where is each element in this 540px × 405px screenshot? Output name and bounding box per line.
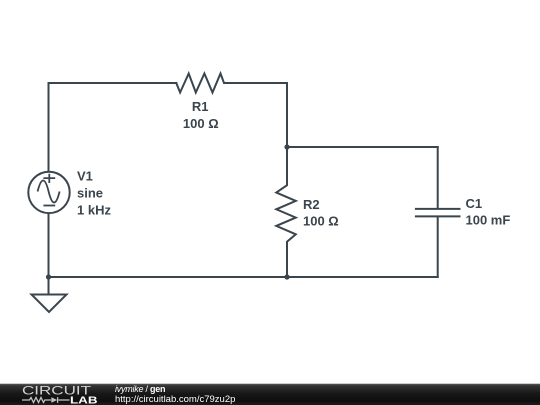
svg-text:100 Ω: 100 Ω <box>183 116 219 131</box>
svg-text:R2: R2 <box>303 197 320 212</box>
svg-text:C1: C1 <box>466 196 483 211</box>
svg-text:V1: V1 <box>77 169 93 184</box>
svg-text:100 mF: 100 mF <box>466 213 511 228</box>
svg-text:sine: sine <box>77 186 103 201</box>
svg-text:100 Ω: 100 Ω <box>303 214 339 229</box>
svg-text:1 kHz: 1 kHz <box>77 203 111 218</box>
svg-text:http://circuitlab.com/c79zu2p: http://circuitlab.com/c79zu2p <box>115 394 235 405</box>
svg-text:ivymike / gen: ivymike / gen <box>115 384 165 394</box>
svg-text:R1: R1 <box>192 99 209 114</box>
svg-text:LAB: LAB <box>70 396 98 405</box>
